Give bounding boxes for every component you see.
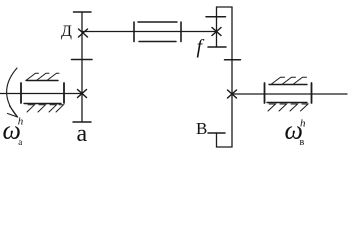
node X shaft-a to link [78,90,87,98]
cap tick top [74,11,92,13]
bearing tick right-block L [264,83,266,103]
node X shaft-b to bracket [228,90,237,98]
link a-d (central vertical link) [81,12,83,122]
wire shaft d (top horizontal) [82,31,217,33]
link b cap tick [208,132,225,134]
svg-text:f: f [197,36,205,58]
hatching left top [27,73,60,80]
link f top tick [206,16,226,18]
wire shaft b (output, right) [232,93,347,95]
cap tick middle [72,59,93,61]
ground frame left bottom [24,103,61,105]
svg-text:В: В [196,119,207,138]
svg-text:h: h [300,118,306,130]
hatching right top [272,77,307,84]
bearing tick left-block L [20,83,22,103]
coupling left tick [133,22,135,42]
svg-text:в: в [300,137,305,148]
svg-text:Д: Д [61,23,72,40]
rotation arrow omega_a [7,68,18,117]
coupling right tick [180,22,182,42]
node X shaft-d to link [79,29,88,37]
link f bottom tick [208,46,226,48]
hatching right bottom [268,104,308,111]
ground frame right top [269,84,307,86]
link f vertical [216,7,218,47]
svg-text:h: h [18,116,24,128]
svg-text:а: а [18,137,22,147]
cap tick bottom [73,121,91,123]
bracket link f to link b [217,7,233,147]
svg-text:а: а [77,121,88,147]
bearing tick right-block R [311,83,313,103]
hatching left bottom [27,105,64,112]
gear tick on link b [225,59,241,61]
bearing tick left-block R [63,83,65,103]
ground frame right bottom [267,102,307,104]
node X shaft-d to link f [212,28,221,36]
ground frame left top [26,80,58,82]
coupling top bar [138,21,177,23]
coupling bottom bar [139,41,176,43]
wire shaft a (input shaft, left) [0,93,82,95]
